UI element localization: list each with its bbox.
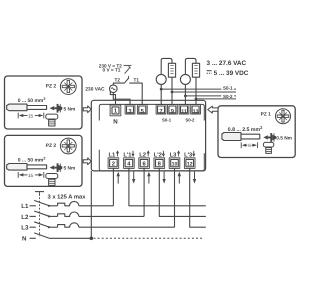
svg-text:0 ... 50 mm2: 0 ... 50 mm2 (18, 97, 46, 104)
svg-text:L'3: L'3 (184, 151, 193, 158)
S0 meter 1: pulse receiver circle (156, 74, 166, 84)
net label S0-2 (221, 93, 234, 99)
device left edge extension down to N junction (90, 171, 92, 238)
230 VAC source (110, 85, 118, 93)
svg-text:T1: T1 (134, 77, 140, 82)
upper terminal row outline (99, 104, 204, 120)
svg-text:S0-1: S0-1 (162, 118, 172, 123)
terminal 12 (184, 158, 195, 169)
svg-text:5 Nm: 5 Nm (64, 106, 76, 112)
svg-text:0.8 ... 2.5 mm2: 0.8 ... 2.5 mm2 (228, 125, 263, 133)
tariff switch blade (124, 78, 129, 83)
svg-text:15: 15 (28, 113, 34, 118)
svg-text:PZ 1: PZ 1 (261, 112, 271, 118)
PZ2 terminal-info box 1 (0...50mm2, 5 Nm) (5, 76, 83, 129)
svg-text:L'2: L'2 (154, 151, 162, 158)
wire: terminal 12 riser + L3 out line with down arrow (190, 168, 206, 227)
svg-text:3 x 125 A max: 3 x 125 A max (48, 193, 87, 200)
terminal 4 (124, 158, 135, 169)
legend mini tariff switch (124, 65, 132, 73)
svg-text:230 VAC: 230 VAC (85, 87, 105, 93)
svg-text:10: 10 (172, 162, 178, 168)
dimension 15 mm (18, 113, 44, 119)
screw sideways icon + torque (50, 104, 63, 113)
svg-text:L3: L3 (21, 225, 29, 232)
wire: terminal 2 riser to L1 with up arrow (112, 168, 114, 205)
L3 mains line with switch and fuse (30, 222, 175, 228)
wire: terminal 8 riser + L2 out line with down arrow (159, 168, 206, 216)
terminal 2 (108, 158, 119, 169)
terminal 11 (179, 105, 189, 114)
screw front icon (46, 114, 58, 126)
energy meter device box (91, 100, 205, 171)
S0 wire labels (221, 85, 234, 99)
S0-2 wire pair (185, 95, 236, 97)
svg-text:2: 2 (112, 161, 115, 168)
svg-text:L3: L3 (170, 151, 178, 158)
svg-text:15: 15 (28, 173, 34, 178)
svg-text:L1: L1 (21, 203, 29, 210)
wire: terminal 4 riser + L1 out line with down arrow (129, 168, 206, 205)
svg-text:11: 11 (181, 109, 187, 115)
terminal 6 (139, 158, 150, 169)
junction dots on S0 wires (160, 88, 163, 91)
wire: meter1 box to terminal 9 (171, 77, 173, 104)
N junction dot (90, 237, 94, 241)
svg-text:3 ... 27.6 VAC: 3 ... 27.6 VAC (207, 60, 247, 67)
svg-text:0 ... 50 mm2: 0 ... 50 mm2 (18, 156, 46, 163)
terminal 10 (169, 158, 180, 169)
arrow from info box 2 to lower terminal row (83, 158, 91, 165)
wire: terminal 6 riser to L2 with up arrow (143, 168, 145, 216)
wire: T1 contact to terminal 5 (129, 83, 142, 105)
svg-text:13: 13 (193, 109, 199, 115)
wire: meter2 box to terminal 13 (195, 77, 197, 104)
wire: source to terminal 3 (113, 93, 130, 105)
svg-text:5 Nm: 5 Nm (64, 166, 76, 172)
svg-text:S0-2: S0-2 (223, 94, 233, 99)
svg-text:T2: T2 (115, 77, 121, 82)
terminal 1 (N) double box (110, 105, 121, 116)
terminal 3 (125, 105, 135, 114)
terminal 9 (168, 105, 178, 114)
svg-text:6: 6 (248, 143, 251, 148)
net label S0-1 (221, 85, 234, 91)
svg-text:N: N (22, 236, 27, 243)
L2 mains line with switch and fuse (30, 211, 145, 217)
S0 meter 2: pulse receiver circle (180, 74, 190, 84)
svg-text:0 V = T1: 0 V = T1 (103, 68, 121, 73)
N mains line with switch (30, 233, 92, 238)
wire: meter2 circle to terminal 11 (184, 84, 186, 104)
arrow from PZ1 box to terminal rows (208, 106, 218, 113)
arrow from info box 1 to upper terminal row (83, 106, 91, 113)
terminal 13 (191, 105, 201, 114)
svg-text:0.5 Nm: 0.5 Nm (276, 136, 292, 142)
DC symbol of 5...39 VDC (207, 71, 212, 74)
switch gang dashed link with handle (35, 192, 44, 237)
PZ2 terminal-info box 2 (duplicate) (5, 135, 83, 186)
svg-text:L2: L2 (139, 151, 146, 158)
wire: N wire from 230VAC source to terminal 1 (110, 91, 115, 105)
S0 meter 2: series element box (185, 58, 196, 74)
svg-text:12: 12 (187, 162, 193, 168)
svg-text:N: N (113, 119, 118, 126)
svg-text:S0-2: S0-2 (185, 118, 195, 123)
terminal 7 (156, 105, 166, 114)
terminal 5 (137, 105, 147, 114)
svg-text:PZ 2: PZ 2 (46, 84, 57, 90)
lower terminal row outline (99, 150, 204, 171)
svg-text:L1: L1 (109, 152, 117, 158)
svg-text:5 ... 39 VDC: 5 ... 39 VDC (214, 70, 249, 77)
svg-text:S0-1: S0-1 (223, 85, 233, 90)
labels of PZ2 box 2 (18, 143, 75, 178)
svg-text:PZ 2: PZ 2 (46, 143, 57, 149)
terminal 8 (154, 158, 165, 169)
S0-1 wire pair (161, 88, 236, 90)
pozidriv bit icon PZ2-1 (60, 79, 76, 95)
svg-text:L'1: L'1 (123, 152, 132, 158)
svg-text:L2: L2 (21, 214, 29, 221)
small arrows in lower terminal labels (116, 150, 195, 157)
S0 meter 1: series element box (161, 58, 172, 74)
svg-text:7: 7 (159, 109, 162, 115)
N dotted continuation (94, 237, 205, 239)
wire: source to tariff switch contact T2 (113, 83, 124, 85)
wire: terminal 10 riser to L3 with up arrow (174, 168, 176, 227)
wire: meter1 circle to terminal 7 (160, 84, 162, 104)
PZ1 terminal-info box (0.8...2.5mm2, 0.5 Nm) (218, 106, 295, 158)
L1 mains line with switch and fuse (30, 200, 114, 207)
cable with stripped end (7, 104, 47, 111)
